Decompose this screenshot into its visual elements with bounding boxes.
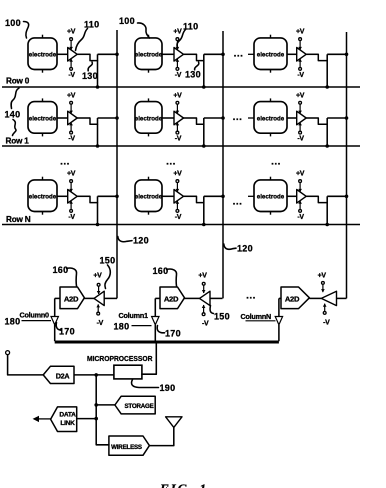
-V supply for U12 — [297, 122, 304, 142]
switch 130 cell 20 (row-select step) — [90, 196, 98, 202]
wire cell 10 to column line — [98, 117, 118, 119]
wire cell 01 to column line — [204, 53, 223, 55]
wire electrode E02 to amp U02 — [287, 53, 297, 55]
leader 180 to Column0 wire — [22, 320, 52, 322]
DATA LINK block — [51, 407, 77, 432]
junction column 1 tap 21 — [221, 195, 225, 199]
-V supply for U1N — [323, 303, 330, 326]
wire D2A to microprocessor — [74, 374, 114, 376]
svg-text:+V: +V — [296, 171, 305, 178]
wire spine to DATA LINK — [77, 418, 97, 420]
op-amp U12 pixel buffer — [297, 111, 307, 125]
row line Row N — [2, 224, 360, 226]
D2A converter — [43, 366, 74, 383]
+V supply for U02 — [296, 29, 305, 50]
STORAGE block — [115, 396, 155, 414]
wire microprocessor to bus — [142, 342, 156, 374]
spine wire microprocessor system — [96, 375, 109, 445]
+V supply for U01 — [173, 29, 182, 50]
switch 130 cell 02 (row-select step) — [318, 54, 327, 60]
wire U02 output — [306, 53, 318, 55]
svg-text:electrode: electrode — [29, 115, 57, 122]
op-amp U21 pixel buffer — [174, 190, 184, 204]
junction column 1 tap 01 — [221, 53, 225, 57]
wire U12 output — [306, 117, 318, 119]
svg-text:FIG. 1: FIG. 1 — [159, 481, 208, 488]
svg-text:160: 160 — [53, 265, 69, 275]
wire cell 02 to column line — [327, 53, 346, 55]
+V supply for U11 — [173, 92, 182, 113]
op-amp U10 pixel buffer — [68, 111, 78, 125]
svg-text:A2D: A2D — [285, 294, 300, 303]
junction row 1 line / control 10 — [96, 144, 100, 148]
svg-text:WIRELESS: WIRELESS — [111, 444, 142, 451]
junction row N line / control 21 — [202, 223, 206, 227]
wire electrode E20 to amp U20 — [57, 195, 68, 197]
wire stub to electrode E03 — [248, 53, 254, 55]
svg-text:190: 190 — [160, 383, 176, 393]
-V supply for U10 — [96, 304, 103, 327]
svg-text:100: 100 — [119, 16, 135, 26]
op-amp U22 pixel buffer — [297, 190, 307, 204]
svg-text:electrode: electrode — [257, 52, 285, 59]
wire row-select control cell 00 — [97, 54, 99, 87]
wire electrode E00 to amp U00 — [57, 53, 68, 55]
svg-text:180: 180 — [5, 317, 21, 327]
junction column 0 tap 10 — [115, 116, 119, 120]
electrode E11 — [135, 98, 163, 136]
svg-text:+V: +V — [173, 92, 182, 99]
svg-text:-V: -V — [297, 136, 304, 143]
electrode E22 — [254, 177, 287, 215]
svg-text:120: 120 — [133, 236, 149, 246]
leader 170 to wire 1 — [157, 326, 164, 333]
wire row-select control cell 12 — [326, 118, 328, 146]
wire cell 11 to column line — [204, 117, 223, 119]
+V supply for U10 — [93, 273, 102, 295]
svg-text:...: ... — [233, 197, 243, 208]
wire stub to electrode E13 — [248, 117, 254, 119]
electrode E21 — [135, 177, 163, 215]
svg-text:-V: -V — [175, 214, 182, 221]
svg-text:electrode: electrode — [135, 52, 163, 59]
junction row N line / control 20 — [96, 223, 100, 227]
leader 140 down to Row 1 — [13, 120, 17, 136]
column line Column0 — [116, 30, 118, 298]
wire A2D1 output down to data bus — [155, 297, 160, 299]
wire cell 21 to column line — [204, 195, 223, 197]
svg-text:120: 120 — [237, 244, 253, 254]
svg-text:+V: +V — [198, 273, 207, 280]
svg-text:electrode: electrode — [29, 194, 57, 201]
microprocessor box 190 — [114, 365, 142, 379]
svg-text:180: 180 — [114, 322, 130, 332]
switch 130 cell 01 (row-select step) — [197, 54, 204, 60]
wire stub to electrode E23 — [248, 195, 254, 197]
leader 140 up to Row 0 line — [11, 88, 19, 109]
svg-text:+V: +V — [173, 29, 182, 36]
wire cell 00 to column line — [98, 53, 118, 55]
svg-text:LINK: LINK — [60, 420, 75, 427]
svg-text:...: ... — [60, 157, 70, 168]
wire row-select control cell 01 — [203, 54, 205, 87]
junction row 0 line / control 01 — [202, 85, 206, 89]
op-amp U11 column buffer — [200, 291, 211, 305]
leader 150 to U10 — [105, 265, 110, 289]
svg-text:...: ... — [271, 157, 281, 168]
junction column 0 tap 00 — [115, 53, 119, 57]
wire A2D0 output down to data bus — [55, 297, 60, 299]
electrode E00 — [28, 35, 57, 73]
wire U21 output — [184, 195, 197, 197]
op-amp U02 pixel buffer — [297, 48, 307, 62]
leader 170 to wire 0 — [56, 323, 61, 331]
leader 160 to A2D0 — [67, 268, 77, 286]
switch 130 cell 11 (row-select step) — [197, 118, 204, 124]
column line Column1 — [222, 31, 224, 298]
svg-text:-V: -V — [202, 321, 209, 328]
svg-text:150: 150 — [100, 256, 116, 266]
svg-text:150: 150 — [214, 312, 230, 322]
leader ColumnN to wire — [246, 320, 276, 322]
op-amp U1N column buffer — [321, 291, 336, 305]
wire U20 output — [77, 195, 90, 197]
leader 180 to Column1 wire — [132, 325, 152, 327]
arrow column1 data direction — [152, 317, 159, 325]
leader 100 to E00 — [24, 22, 29, 39]
wire electrode E21 to amp U21 — [162, 195, 174, 197]
junction row 1 line / control 11 — [202, 144, 206, 148]
wire electrode E11 to amp U11 — [162, 117, 174, 119]
wire spine to STORAGE — [96, 404, 115, 406]
wire electrode E22 to amp U22 — [287, 195, 297, 197]
data bus to microprocessor — [55, 341, 279, 344]
wire row-select control cell 02 — [326, 54, 328, 87]
electrode E01 — [135, 35, 163, 73]
svg-text:-V: -V — [68, 72, 75, 79]
svg-text:130: 130 — [185, 70, 201, 80]
wire row-select control cell 20 — [97, 196, 99, 224]
switch 130 cell 10 (row-select step) — [90, 118, 98, 124]
svg-text:-V: -V — [175, 72, 182, 79]
electrode E20 — [28, 177, 57, 215]
svg-text:electrode: electrode — [29, 52, 57, 59]
WIRELESS block — [109, 436, 149, 455]
svg-text:-V: -V — [97, 320, 104, 327]
svg-text:+V: +V — [67, 92, 76, 99]
svg-text:...: ... — [234, 49, 244, 60]
svg-text:MICROPROCESSOR: MICROPROCESSOR — [87, 354, 153, 363]
A2D converter A2DN — [281, 287, 309, 309]
-V supply for U20 — [68, 201, 75, 221]
leader 130 to switch 00 — [88, 62, 92, 71]
electrode E12 — [254, 98, 287, 136]
+V supply for U00 — [67, 29, 76, 50]
svg-text:-V: -V — [68, 136, 75, 143]
svg-text:electrode: electrode — [135, 115, 163, 122]
junction column 1 tap 11 — [221, 116, 225, 120]
op-amp U00 pixel buffer — [68, 48, 78, 62]
wire row-select control cell 10 — [97, 118, 99, 146]
op-amp U10 column buffer — [94, 291, 104, 305]
svg-text:+V: +V — [296, 92, 305, 99]
svg-text:170: 170 — [165, 329, 181, 339]
wire U22 output — [306, 195, 318, 197]
+V supply for U20 — [67, 171, 76, 192]
svg-text:Row 1: Row 1 — [6, 137, 30, 146]
svg-text:170: 170 — [59, 327, 75, 337]
junction spine / DATA LINK — [94, 417, 98, 421]
junction spine / STORAGE — [94, 403, 98, 407]
switch 130 cell 21 (row-select step) — [197, 196, 204, 202]
wire row-select control cell 21 — [203, 196, 205, 224]
arrow column0 data direction — [51, 317, 58, 325]
leader 150 to U11 — [210, 306, 213, 314]
svg-text:Row 0: Row 0 — [6, 77, 30, 86]
op-amp U20 pixel buffer — [68, 190, 78, 204]
svg-text:electrode: electrode — [257, 115, 285, 122]
svg-text:...: ... — [233, 112, 243, 123]
wire U10 output — [77, 117, 90, 119]
row line Row 0 — [2, 86, 360, 88]
wire column line to U10 input — [104, 297, 117, 299]
-V supply for U11 — [202, 305, 209, 328]
switch 130 cell 12 (row-select step) — [318, 118, 327, 124]
wire terminal to D2A — [8, 355, 44, 375]
wire U01 output — [184, 53, 197, 55]
junction column N tap 12 — [345, 116, 349, 120]
junction spine / D2A — [94, 373, 98, 377]
svg-text:electrode: electrode — [257, 194, 285, 201]
svg-text:-V: -V — [297, 214, 304, 221]
svg-text:DATA: DATA — [59, 412, 76, 419]
leader 110 to U01 — [177, 30, 186, 49]
op-amp U01 pixel buffer — [174, 48, 184, 62]
wire cell 20 to column line — [98, 195, 118, 197]
A2D converter A2D0 — [60, 287, 84, 309]
svg-text:Column0: Column0 — [20, 311, 50, 320]
+V supply for U22 — [296, 171, 305, 192]
-V supply for U21 — [175, 201, 182, 221]
antenna — [166, 417, 182, 428]
leader 190 to microprocessor box — [132, 380, 159, 388]
wire A2D1 input from amp — [185, 297, 200, 299]
-V supply for U01 — [175, 59, 182, 79]
junction row N line / control 22 — [325, 223, 329, 227]
-V supply for U10 — [68, 122, 75, 142]
svg-text:130: 130 — [82, 71, 98, 81]
leader 110 to U00 — [76, 29, 88, 51]
svg-text:+V: +V — [67, 171, 76, 178]
svg-text:Column1: Column1 — [119, 311, 149, 320]
svg-text:Row N: Row N — [6, 215, 31, 224]
wire electrode E01 to amp U01 — [162, 53, 174, 55]
+V supply for U1N — [318, 273, 327, 293]
wire column line to U1N input — [337, 297, 347, 299]
wire WIRELESS to antenna — [149, 427, 173, 445]
column line ColumnN — [346, 32, 348, 298]
arrow columnN data direction — [275, 317, 282, 325]
A2D converter A2D1 — [160, 287, 185, 309]
wire column line to U11 input — [210, 297, 223, 299]
electrode E10 — [28, 98, 57, 136]
-V supply for U00 — [68, 59, 75, 79]
svg-text:110: 110 — [84, 20, 99, 30]
op-amp U11 pixel buffer — [174, 111, 184, 125]
svg-text:140: 140 — [5, 110, 21, 120]
svg-text:-V: -V — [175, 136, 182, 143]
-V supply for U02 — [297, 59, 304, 79]
-V supply for U11 — [175, 122, 182, 142]
+V supply for U12 — [296, 92, 305, 113]
electrode E02 — [254, 35, 287, 73]
junction row 0 line / control 00 — [96, 85, 100, 89]
leader 120 to Column1 line — [224, 244, 236, 249]
svg-text:-V: -V — [323, 319, 330, 326]
+V supply for U11 — [198, 273, 207, 294]
svg-text:D2A: D2A — [56, 371, 70, 380]
svg-text:...: ... — [246, 291, 256, 302]
switch 130 cell 00 (row-select step) — [90, 54, 98, 60]
svg-text:+V: +V — [173, 171, 182, 178]
+V supply for U21 — [173, 171, 182, 192]
svg-text:-V: -V — [297, 72, 304, 79]
+V supply for U10 — [67, 92, 76, 113]
junction column N tap 02 — [345, 53, 349, 57]
leader 100 to E01 — [138, 23, 150, 38]
arrowhead data link output — [33, 416, 39, 422]
wire electrode E10 to amp U10 — [57, 117, 68, 119]
input terminal (stimulus) — [6, 351, 10, 355]
-V supply for U22 — [297, 201, 304, 221]
svg-text:+V: +V — [296, 29, 305, 36]
svg-text:STORAGE: STORAGE — [124, 403, 153, 410]
leader 160 to A2D1 — [167, 269, 177, 286]
leader 120 to Column0 line — [118, 237, 132, 242]
svg-text:...: ... — [166, 157, 176, 168]
svg-text:+V: +V — [318, 273, 327, 280]
wire electrode E12 to amp U12 — [287, 117, 297, 119]
wire A2DN output down to data bus — [279, 297, 281, 299]
leader 130 to switch 01 — [195, 62, 199, 70]
svg-text:+V: +V — [67, 29, 76, 36]
junction column 0 tap 20 — [115, 195, 119, 199]
svg-text:ColumnN: ColumnN — [241, 312, 272, 321]
svg-text:100: 100 — [5, 18, 21, 28]
wire DATA LINK external arrow — [39, 418, 51, 420]
svg-text:+V: +V — [93, 273, 102, 280]
svg-text:-V: -V — [68, 214, 75, 221]
svg-text:electrode: electrode — [135, 194, 163, 201]
wire U11 output — [184, 117, 197, 119]
wire row-select control cell 22 — [326, 196, 328, 224]
row line Row 1 — [2, 145, 360, 147]
junction row 1 line / control 12 — [325, 144, 329, 148]
wire U00 output — [77, 53, 90, 55]
wire A2DN input from amp — [309, 297, 321, 299]
wire row-select control cell 11 — [203, 118, 205, 146]
svg-text:160: 160 — [153, 266, 169, 276]
wire A2D0 input from amp — [84, 297, 94, 299]
wire cell 12 to column line — [327, 117, 346, 119]
switch 130 cell 22 (row-select step) — [318, 196, 327, 202]
svg-text:A2D: A2D — [64, 294, 79, 303]
junction row 0 line / control 02 — [325, 85, 329, 89]
junction column N tap 22 — [345, 195, 349, 199]
svg-text:A2D: A2D — [164, 294, 179, 303]
wire cell 22 to column line — [327, 195, 346, 197]
